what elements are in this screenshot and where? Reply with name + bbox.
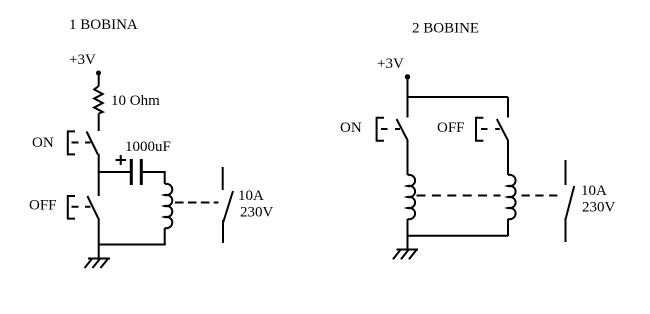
relay coil K1 (left circuit) <box>165 184 173 228</box>
svg-text:+3V: +3V <box>69 52 96 68</box>
relay contact blade (right) <box>566 186 574 218</box>
relay contact top lead (left) <box>222 167 224 190</box>
wire OFF lever to ground <box>98 218 100 258</box>
switch OFF lever (left) <box>87 196 98 219</box>
pushbutton ON actuator bracket (right) <box>377 118 384 141</box>
svg-text:ON: ON <box>340 120 362 136</box>
pushbutton OFF actuator bracket (left) <box>68 196 75 219</box>
svg-text:2 BOBINE: 2 BOBINE <box>412 21 479 37</box>
svg-text:10A: 10A <box>581 183 607 199</box>
capacitor C 1000uF plate right <box>140 159 143 185</box>
svg-text:ON: ON <box>32 135 54 151</box>
capacitor C 1000uF plate left <box>130 159 133 185</box>
pushbutton OFF rod dashes (left) <box>72 206 91 208</box>
dashed link right coil to contact (right) <box>522 195 558 197</box>
ground (left circuit) <box>85 259 111 269</box>
wire top rail to ON branch <box>407 97 409 118</box>
wire capacitor to coil top <box>143 172 165 184</box>
svg-text:OFF: OFF <box>437 120 465 136</box>
polarity plus sign <box>116 155 127 165</box>
wire top rail to OFF branch <box>507 97 509 118</box>
svg-text:1000uF: 1000uF <box>125 139 171 155</box>
top rail wire (right circuit) <box>408 96 509 98</box>
relay coil K2b (right circuit right coil) <box>508 175 516 219</box>
pushbutton ON rod dashes (left) <box>72 142 91 144</box>
wire supply dot to resistor <box>98 74 100 86</box>
wire ON switch to left coil <box>407 140 409 175</box>
node supply dot (right) <box>405 74 410 79</box>
svg-text:230V: 230V <box>582 200 616 216</box>
wire resistor to ON switch <box>98 114 100 132</box>
relay coil K2a (right circuit left coil) <box>408 175 416 219</box>
wire junction A to OFF switch <box>98 172 100 196</box>
wire coil bottom to bottom rail <box>164 228 166 245</box>
relay contact blade (left) <box>223 191 233 222</box>
wire ON lever to junction A <box>98 154 100 173</box>
bottom rail wire (left circuit) <box>99 244 166 246</box>
wire left coil to bottom rail <box>407 219 409 236</box>
wire supply dot to top rail <box>407 77 409 98</box>
svg-text:10A: 10A <box>238 188 264 204</box>
relay contact top lead (right) <box>565 160 567 185</box>
pushbutton ON rod dashes (right) <box>381 128 400 130</box>
switch ON lever (left) <box>87 132 98 155</box>
svg-text:+3V: +3V <box>377 56 404 72</box>
switch OFF lever (right) <box>497 119 508 140</box>
pushbutton ON actuator bracket (left) <box>68 131 75 154</box>
node A wire to capacitor <box>99 171 130 173</box>
svg-text:230V: 230V <box>240 205 274 221</box>
svg-text:1 BOBINA: 1 BOBINA <box>69 17 138 33</box>
bottom rail wire (right circuit) <box>408 235 509 237</box>
wire bottom rail to ground <box>407 236 409 250</box>
switch ON lever (right) <box>397 119 408 140</box>
node supply dot (left) <box>96 71 101 76</box>
dashed link coils to contact (right) <box>417 195 501 197</box>
wire OFF switch to right coil <box>507 140 509 175</box>
relay contact bottom lead (left) <box>222 220 224 243</box>
svg-text:10 Ohm: 10 Ohm <box>111 93 160 109</box>
resistor R 10 Ohm <box>94 86 103 114</box>
relay contact bottom lead (right) <box>565 218 567 242</box>
pushbutton OFF rod dashes (right) <box>481 128 500 130</box>
ground (right circuit) <box>393 250 418 260</box>
dashed link coil to contact (left) <box>175 202 219 204</box>
pushbutton OFF actuator bracket (right) <box>476 118 483 141</box>
wire right coil to bottom rail <box>507 219 509 236</box>
svg-text:OFF: OFF <box>29 198 57 214</box>
